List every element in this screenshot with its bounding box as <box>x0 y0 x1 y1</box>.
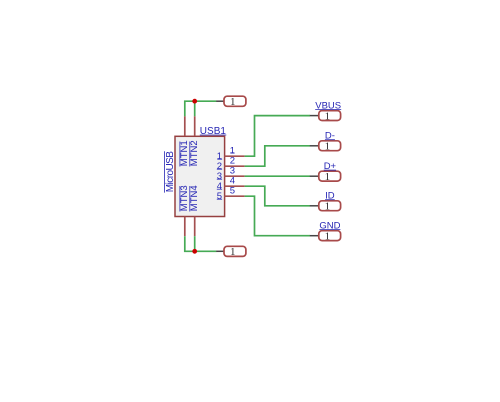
svg-text:1: 1 <box>325 201 331 213</box>
port GND: pin stub <box>310 235 319 237</box>
pin MTN4 (bottom right stub) <box>194 217 196 237</box>
port bottom: pin stub <box>216 250 224 252</box>
svg-text:1: 1 <box>325 230 331 242</box>
port top: pin stub <box>216 100 224 102</box>
svg-text:1: 1 <box>230 246 236 258</box>
port D+: pin stub <box>310 175 319 177</box>
pin 5 stub <box>224 195 244 197</box>
wire pin1 to VBUS <box>245 116 310 157</box>
port ID: pin stub <box>310 205 319 207</box>
wire top-right vertical <box>194 101 196 116</box>
svg-text:1: 1 <box>325 141 331 153</box>
port D-: pin stub <box>310 145 319 147</box>
pin MTN1 (top left stub) <box>184 116 186 136</box>
port ID: box <box>319 201 341 211</box>
port VBUS: pin stub <box>310 115 319 117</box>
port top: box <box>224 96 246 106</box>
wire pin5 to GND <box>245 196 310 236</box>
connector USB1 body <box>175 136 225 216</box>
svg-text:5: 5 <box>230 185 235 196</box>
port D+: box <box>319 171 341 181</box>
port VBUS: box <box>319 111 341 121</box>
wire pin4 to ID <box>245 186 310 206</box>
pin 4 stub <box>224 185 244 187</box>
svg-text:1: 1 <box>230 96 236 108</box>
junction top <box>192 99 197 104</box>
svg-text:MicroUSB: MicroUSB <box>165 151 176 192</box>
svg-text:MTN2: MTN2 <box>189 140 200 166</box>
pin 3 stub <box>224 175 244 177</box>
svg-text:5: 5 <box>217 191 222 202</box>
port D-: box <box>319 141 341 151</box>
port bottom: box <box>224 246 246 256</box>
port GND: box <box>319 231 341 241</box>
wire pin3 to D+ <box>245 175 310 177</box>
pin MTN3 (bottom left stub) <box>184 217 186 237</box>
svg-text:1: 1 <box>325 110 331 122</box>
pin 1 stub <box>224 155 244 157</box>
wire bottom-left L to port <box>185 236 217 251</box>
svg-text:MTN4: MTN4 <box>189 185 200 211</box>
pin MTN2 (top right stub) <box>194 116 196 136</box>
pin 2 stub <box>224 165 244 167</box>
svg-text:1: 1 <box>325 171 331 183</box>
junction bottom <box>192 249 197 254</box>
wire pin2 to D- <box>245 146 310 166</box>
wire bottom-right vertical <box>194 236 196 251</box>
wire top-left L to port <box>185 101 217 116</box>
